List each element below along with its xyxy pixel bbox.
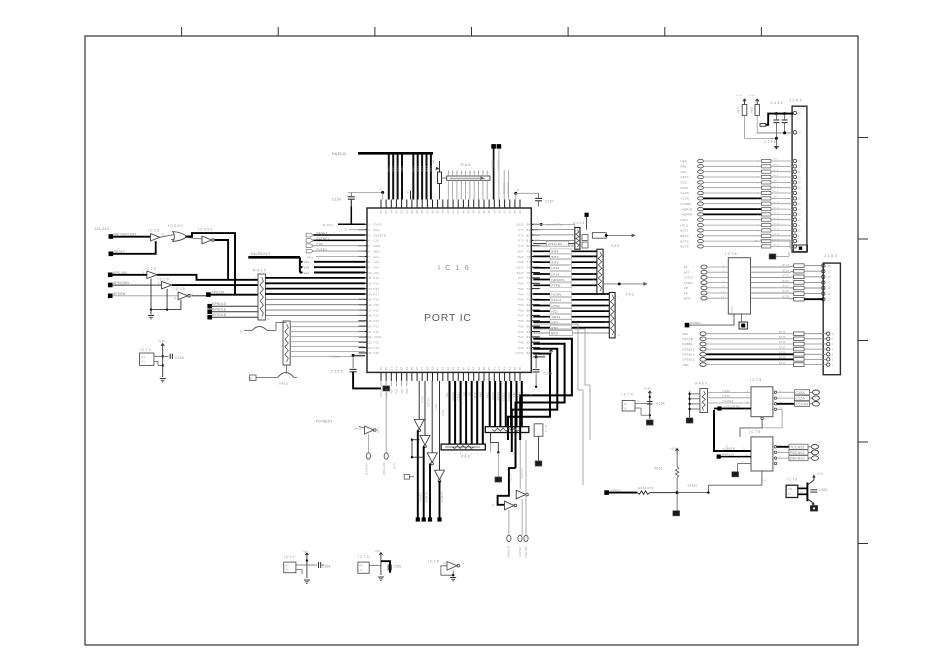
svg-text:+5.5vp: +5.5vp (330, 354, 340, 358)
terminal WBT02A row (717, 455, 721, 459)
svg-text:P67: P67 (518, 276, 524, 280)
svg-text:A55A5V: A55A5V (518, 546, 522, 557)
svg-text:BIT3: BIT3 (552, 255, 559, 259)
svg-text:40: 40 (436, 367, 440, 371)
IC75 lower bottom pin 35 (761, 471, 763, 485)
svg-text:39: 39 (467, 210, 471, 214)
svg-text:16: 16 (368, 303, 372, 307)
svg-text:13NL3: 13NL3 (496, 392, 500, 401)
svg-text:NC3PL: NC3PL (552, 292, 563, 296)
svg-text:BCT2: BCT2 (681, 234, 689, 238)
svg-text:BT37: BT37 (779, 346, 786, 349)
net flag FLREV to pin6 (306, 249, 313, 253)
svg-text:62: 62 (527, 341, 531, 345)
svg-text:+5.5v: +5.5v (817, 473, 825, 476)
svg-text:47: 47 (425, 210, 429, 214)
svg-text:+5.5V: +5.5V (540, 352, 548, 356)
wire ICS02 output thick riser to column x=235 (185, 233, 235, 295)
svg-text:C157: C157 (545, 200, 554, 204)
svg-text:MA6: MA6 (517, 255, 524, 259)
svg-text:BCT5: BCT5 (681, 245, 689, 249)
component box with dot above J103 (794, 245, 808, 252)
svg-text:-HDPPA: -HDPPA (681, 213, 693, 217)
svg-text:10: 10 (368, 271, 372, 275)
svg-text:A: A (451, 172, 454, 174)
svg-text:33: 33 (400, 367, 404, 371)
svg-text:C10: C10 (374, 239, 380, 243)
IC75 lower stub 17 and ground (737, 463, 751, 465)
svg-text:A1: A1 (286, 569, 290, 572)
ground chevron IC74 (160, 379, 166, 382)
svg-text:NT3SRV: NT3SRV (365, 463, 369, 475)
svg-text:19: 19 (798, 181, 802, 185)
svg-text:C 1 5 2: C 1 5 2 (771, 101, 783, 105)
svg-text:CC2A: CC2A (681, 191, 690, 195)
svg-text:1SS: 1SS (400, 166, 404, 172)
gray wires of bundle (533, 324, 583, 485)
svg-text:19: 19 (368, 319, 372, 323)
svg-text:B117: B117 (517, 266, 524, 270)
svg-text:A0: A0 (684, 265, 688, 269)
svg-text:CC2A: CC2A (681, 197, 690, 201)
svg-text:11: 11 (368, 276, 372, 280)
svg-text:41: 41 (456, 210, 460, 214)
svg-text:I C 2 3: I C 2 3 (145, 267, 156, 271)
svg-text:24: 24 (368, 346, 372, 350)
svg-text:36: 36 (415, 367, 419, 371)
svg-text:13: 13 (798, 213, 802, 217)
svg-text:CPL0: CPL0 (681, 175, 689, 179)
svg-text:BT40: BT40 (779, 362, 786, 365)
svg-text:1VDD: 1VDD (374, 335, 382, 339)
svg-text:50: 50 (487, 367, 491, 371)
svg-text:18: 18 (368, 314, 372, 318)
svg-text:49: 49 (415, 210, 419, 214)
J103 lower signal rows (682, 331, 834, 367)
svg-text:79: 79 (527, 249, 531, 253)
svg-text:APSCNSV: APSCNSV (113, 281, 130, 285)
svg-text:30: 30 (384, 367, 388, 371)
gate ground rail and chevron (150, 279, 152, 310)
svg-text:31: 31 (508, 210, 512, 214)
svg-text:BT4: BT4 (774, 170, 779, 172)
svg-text:CC: CC (684, 291, 689, 295)
svg-text:72: 72 (527, 287, 531, 291)
svg-text:RA15: RA15 (279, 382, 287, 386)
polar cap component under IC7A (741, 314, 743, 322)
svg-text:PA0: PA0 (681, 165, 687, 169)
terminal BPSOLD (207, 304, 212, 309)
svg-text:P32: P32 (374, 330, 380, 334)
svg-text:BT14: BT14 (774, 223, 781, 225)
svg-text:P33: P33 (374, 341, 380, 345)
svg-text:P21: P21 (374, 282, 380, 286)
svg-text:R151: R151 (654, 466, 662, 470)
svg-text:A: A (468, 172, 471, 174)
RA5 output wire with dot and arrow (603, 283, 646, 285)
svg-text:C150: C150 (175, 356, 184, 360)
svg-text:38: 38 (425, 367, 429, 371)
component RA7 small box right (534, 424, 543, 437)
svg-text:C158: C158 (544, 372, 553, 376)
border ruler ticks top (182, 27, 762, 36)
svg-text:R320CA: R320CA (506, 183, 510, 194)
svg-text:B: B (529, 394, 533, 396)
terminal KP5139 thick wire to RA10 (206, 292, 211, 297)
svg-text:40: 40 (461, 210, 465, 214)
resistor box and arrow wire at y235 (592, 233, 606, 239)
svg-text:44: 44 (441, 210, 445, 214)
svg-text:42: 42 (446, 367, 450, 371)
RA7 rotated net labels (485, 392, 521, 402)
svg-text:TCCNS2: TCCNS2 (790, 445, 805, 449)
svg-text:60: 60 (527, 351, 531, 355)
svg-text:1SS: 1SS (425, 166, 429, 172)
svg-text:P52: P52 (518, 324, 524, 328)
svg-text:TSCL2: TSCL2 (379, 388, 383, 398)
svg-text:4: 4 (368, 239, 370, 243)
svg-text:J 1 0 3: J 1 0 3 (824, 254, 837, 258)
svg-text:A07: A07 (445, 392, 449, 398)
wire IC23 output thick to RA10 row (157, 275, 258, 280)
svg-text:12: 12 (798, 218, 802, 222)
svg-text:PTPB: PTPB (552, 284, 561, 288)
svg-text:I C 2 9: I C 2 9 (158, 277, 169, 281)
capacitor C352 (810, 489, 817, 491)
svg-text:71: 71 (527, 292, 531, 296)
svg-text:82: 82 (527, 233, 531, 237)
svg-text:NTSSRV: NTSSRV (507, 546, 511, 558)
svg-text:46: 46 (431, 210, 435, 214)
capacitor C150 (163, 355, 169, 357)
driver triangle ICC6A (516, 490, 526, 499)
svg-text:P31: P31 (374, 324, 380, 328)
svg-text:BT24: BT24 (783, 269, 790, 272)
svg-text:BT8: BT8 (774, 191, 779, 193)
svg-text:MA5: MA5 (517, 260, 524, 264)
svg-text:P65: P65 (518, 287, 524, 291)
driver outputs to ovals (508, 510, 510, 536)
svg-text:NC2: NC2 (552, 310, 559, 314)
svg-text:A: A (460, 172, 463, 174)
svg-text:CPSEL0: CPSEL0 (682, 347, 694, 351)
svg-text:63: 63 (527, 335, 531, 339)
IC75 upper right rows with boxed labels and oval pads (774, 390, 819, 407)
svg-text:P47: P47 (518, 335, 524, 339)
svg-text:11: 11 (174, 297, 177, 300)
svg-text:-HDP1R: -HDP1R (681, 207, 693, 211)
svg-text:45: 45 (436, 210, 440, 214)
svg-text:11.3Vp: 11.3Vp (322, 223, 333, 227)
svg-text:17: 17 (368, 308, 372, 312)
svg-text:70: 70 (527, 298, 531, 302)
IC7A right output rows to J103 via resistors (751, 264, 826, 302)
svg-text:23: 23 (368, 341, 372, 345)
svg-text:1VDD: 1VDD (516, 351, 524, 355)
svg-text:13: 13 (368, 287, 372, 291)
RA10 wires to IC16 pins 11-18 (265, 278, 365, 316)
svg-text:BPSOLB: BPSOLB (212, 313, 226, 317)
svg-text:56: 56 (518, 367, 522, 371)
svg-text:VA2: VA2 (374, 260, 380, 264)
svg-text:BT28: BT28 (783, 290, 790, 293)
svg-text:R1: R1 (286, 565, 290, 568)
svg-text:53: 53 (503, 367, 507, 371)
svg-text:34: 34 (492, 210, 496, 214)
svg-text:NC: NC (406, 190, 410, 194)
svg-text:CN11611: CN11611 (524, 546, 528, 559)
svg-text:I C 2 8: I C 2 8 (174, 287, 185, 291)
svg-text:PORT IC: PORT IC (424, 312, 472, 324)
svg-text:1SS: 1SS (429, 166, 433, 172)
svg-text:24: 24 (798, 131, 802, 135)
svg-text:C598: C598 (322, 565, 330, 569)
svg-text:NNC: NNC (485, 392, 489, 398)
svg-text:I C 7 6: I C 7 6 (787, 477, 798, 481)
bus VA2 VA3 VA4 thick feeds (299, 257, 301, 272)
thick wire last IC7A row to J103 (804, 298, 823, 300)
svg-text:10: 10 (267, 318, 271, 321)
svg-text:43: 43 (446, 210, 450, 214)
svg-text:BPSOLD: BPSOLD (212, 302, 227, 306)
svg-text:P48: P48 (518, 341, 524, 345)
bus vertical drops to IC16 top pins (387, 154, 433, 200)
svg-text:P64: P64 (518, 292, 524, 296)
svg-text:G2: G2 (467, 392, 471, 396)
svg-text:PA1H1: PA1H1 (552, 298, 562, 302)
svg-text:T5SDA: T5SDA (507, 392, 511, 401)
svg-text:6: 6 (368, 249, 370, 253)
svg-text:2P11CNA: 2P11CNA (548, 242, 563, 246)
svg-text:C15A: C15A (796, 391, 806, 395)
svg-text:P23: P23 (374, 292, 380, 296)
svg-text:11: 11 (798, 223, 801, 227)
svg-text:BPSOLE: BPSOLE (212, 308, 226, 312)
IC16 right pin stubs + numbers + names (516, 223, 540, 356)
svg-text:9 A 2: 9 A 2 (626, 293, 634, 297)
svg-text:I C 7 5: I C 7 5 (749, 430, 760, 434)
svg-text:P82: P82 (395, 388, 399, 394)
svg-text:44: 44 (456, 367, 460, 371)
svg-text:A1: A1 (624, 407, 628, 410)
svg-text:1: 1 (368, 223, 370, 227)
svg-text:RESETB: RESETB (374, 233, 386, 237)
svg-text:23: 23 (798, 159, 802, 163)
svg-text:P46: P46 (518, 330, 524, 334)
svg-text:81: 81 (527, 239, 531, 243)
svg-text:A1: A1 (142, 360, 146, 364)
svg-text:LP10: LP10 (552, 266, 560, 270)
svg-text:P60: P60 (518, 314, 524, 318)
svg-text:61: 61 (527, 346, 531, 350)
svg-text:CCCNX: CCCNX (796, 402, 810, 406)
svg-text:47: 47 (472, 367, 476, 371)
resistor array RA8 (horizontal bottom) (441, 444, 485, 450)
svg-text:R A 6 0: R A 6 0 (695, 381, 707, 385)
svg-text:LPL2: LPL2 (681, 218, 689, 222)
svg-text:BT34: BT34 (779, 331, 786, 334)
svg-text:C 5 5 8: C 5 5 8 (331, 370, 343, 374)
inverter chain triangle 3 (427, 453, 437, 463)
svg-text:17: 17 (798, 191, 802, 195)
svg-text:2I3: 2I3 (161, 232, 166, 236)
svg-text:PVSS: PVSS (374, 223, 382, 227)
svg-text:C2372: C2372 (684, 276, 694, 280)
svg-text:BT16: BT16 (774, 234, 781, 236)
RA8 bottom number stubs (449, 454, 484, 456)
svg-text:PASS-2: PASS-2 (491, 160, 495, 171)
svg-text:VA3: VA3 (304, 266, 310, 270)
svg-text:A: A (545, 429, 547, 433)
svg-text:I C 5 0 2: I C 5 0 2 (198, 228, 213, 232)
svg-text:83: 83 (527, 228, 531, 232)
svg-text:MA7: MA7 (517, 249, 524, 253)
inverter chain jog wires (411, 440, 413, 458)
RA7 output node bracket (491, 433, 499, 453)
svg-text:18: 18 (798, 186, 802, 190)
svg-text:10: 10 (828, 297, 832, 301)
svg-text:15: 15 (368, 298, 372, 302)
svg-text:A: A (486, 172, 489, 174)
svg-text:15: 15 (828, 269, 832, 273)
svg-text:50: 50 (410, 210, 414, 214)
svg-text:P81: P81 (400, 388, 404, 394)
svg-text:1SS: 1SS (416, 166, 420, 172)
svg-text:BT39: BT39 (779, 357, 786, 360)
svg-text:CC0RA: CC0RA (681, 202, 692, 206)
svg-text:JA1-A13: JA1-A13 (95, 227, 109, 231)
RA5 wires to IC16 top pins (447, 171, 489, 200)
svg-text:84: 84 (527, 223, 531, 227)
svg-text:77: 77 (527, 260, 531, 264)
svg-text:BT5: BT5 (774, 175, 779, 177)
svg-text:BT10: BT10 (774, 202, 781, 204)
terminal BPSOLE (207, 309, 212, 314)
svg-text:1SS: 1SS (387, 166, 391, 172)
svg-text:MD2: MD2 (374, 249, 381, 253)
inverter chain triangle 1 (IC1x) (414, 419, 424, 429)
svg-text:KESE1: KESE1 (688, 483, 698, 487)
svg-text:B116: B116 (517, 271, 524, 275)
svg-text:OCL1B: OCL1B (682, 337, 692, 341)
svg-text:P34: P34 (374, 346, 380, 350)
svg-text:OB7: OB7 (682, 363, 689, 367)
svg-text:22: 22 (798, 165, 802, 169)
svg-text:PBCNS2: PBCNS2 (790, 451, 805, 455)
svg-text:R1B459: R1B459 (424, 492, 428, 503)
svg-text:SW12: SW12 (552, 315, 561, 319)
svg-text:A1: A1 (360, 569, 364, 572)
svg-text:ISC65.2: ISC65.2 (497, 160, 501, 171)
terminal BATTERY.DET (109, 234, 114, 239)
svg-text:BT25: BT25 (783, 275, 790, 278)
svg-text:LPL5: LPL5 (681, 223, 689, 227)
svg-text:13: 13 (828, 281, 832, 285)
svg-text:34: 34 (405, 367, 409, 371)
gray row SR3 into array2 bottom (533, 332, 609, 334)
J102 left signal rows (681, 159, 794, 248)
svg-text:29: 29 (379, 367, 383, 371)
svg-text:37: 37 (477, 210, 481, 214)
C152 capacitor pair (773, 120, 787, 123)
svg-text:8: 8 (368, 260, 370, 264)
svg-text:CC: CC (462, 392, 466, 396)
wire C558 to pad thick (353, 372, 381, 389)
svg-text:IC17: IC17 (434, 404, 438, 411)
node wire to C157 (514, 192, 517, 195)
terminal SPS.15V (108, 273, 113, 278)
svg-text:R343CA: R343CA (502, 183, 506, 194)
svg-text:BT18: BT18 (774, 245, 781, 247)
svg-text:akkA: akkA (355, 428, 361, 431)
rail 2 with C155 ground (745, 137, 777, 139)
IC16 bottom pin stubs + numbers (379, 367, 522, 381)
svg-text:ND3CPA: ND3CPA (552, 278, 565, 282)
svg-text:LPN2: LPN2 (552, 304, 560, 308)
svg-text:WTP: WTP (473, 392, 477, 398)
wires with rotated labels right of bus (503, 170, 505, 200)
svg-text:3C: 3C (800, 492, 803, 494)
svg-text:R152 R73: R152 R73 (638, 486, 653, 490)
svg-text:1SS: 1SS (412, 166, 416, 172)
RA59 wires from pins 83-80 (533, 230, 575, 247)
wire IC29 output thick to RA10 (172, 284, 258, 286)
svg-text:P62: P62 (518, 303, 524, 307)
pad B wire to inverter chain (404, 475, 409, 480)
svg-text:I C 7 7: I C 7 7 (284, 556, 295, 560)
svg-text:BT27: BT27 (783, 285, 790, 288)
svg-text:+5V: +5V (375, 550, 380, 553)
net flag PH3 to pin5 (306, 244, 313, 248)
svg-text:I C S 0 2: I C S 0 2 (168, 224, 183, 228)
svg-text:51: 51 (405, 210, 409, 214)
svg-text:74: 74 (527, 276, 531, 280)
terminal square PA55-2 with thick drop (491, 144, 496, 149)
svg-text:P25: P25 (374, 303, 380, 307)
svg-text:SALPS-D(?): SALPS-D(?) (251, 252, 271, 256)
svg-text:66: 66 (527, 319, 531, 323)
jumper boxes right of RA59 (582, 235, 588, 241)
svg-text:P63: P63 (518, 298, 524, 302)
svg-text:MD1: MD1 (374, 228, 381, 232)
svg-text:5: 5 (368, 244, 370, 248)
resistor array RA16 (vertical, second) (283, 321, 290, 365)
svg-text:A: A (455, 172, 458, 174)
wire chip bottom pin2 through pad to oval (385, 381, 387, 385)
svg-text:1B: 1B (380, 188, 383, 192)
IC IC16 body (PORT IC) (367, 208, 531, 372)
svg-text:41: 41 (441, 367, 445, 371)
svg-text:68: 68 (527, 308, 531, 312)
border ruler ticks right (858, 138, 868, 544)
svg-text:BT23: BT23 (783, 264, 790, 267)
svg-text:73: 73 (527, 282, 531, 286)
svg-text:CCCNA: CCCNA (723, 399, 734, 403)
capacitor C158 at pin 57 with +5.5Vp (535, 355, 538, 358)
terminal APSCNSV (108, 283, 113, 288)
svg-text:NT5: NT5 (393, 463, 397, 469)
svg-text:10: 10 (798, 229, 802, 233)
svg-text:C160: C160 (332, 198, 341, 202)
svg-text:C551: C551 (394, 565, 402, 569)
svg-text:VA4: VA4 (374, 271, 380, 275)
svg-text:BT38: BT38 (779, 352, 786, 355)
wire SPS.15V to IC23 (113, 274, 147, 276)
svg-text:CPSEL1: CPSEL1 (682, 358, 694, 362)
svg-text:42: 42 (451, 210, 455, 214)
svg-text:30: 30 (513, 210, 517, 214)
terminal MCBRL to IC7A bottom (685, 323, 690, 328)
